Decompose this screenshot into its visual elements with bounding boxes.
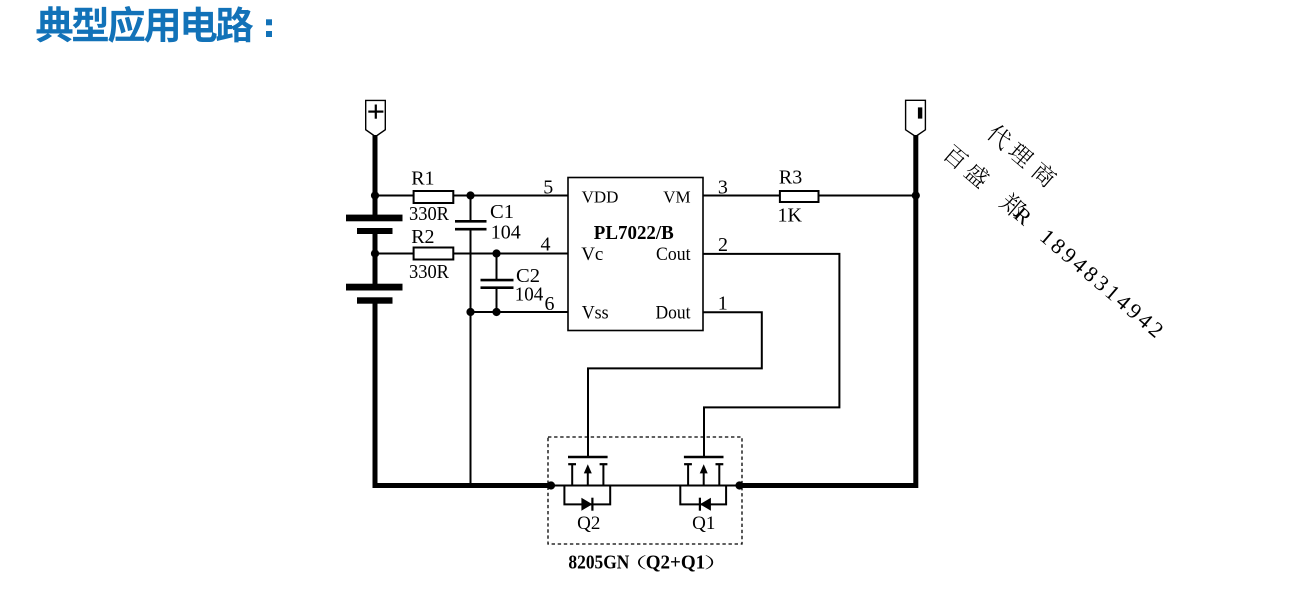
svg-text:Vss: Vss xyxy=(582,303,609,324)
svg-text:330R: 330R xyxy=(409,203,450,225)
svg-text:Vc: Vc xyxy=(581,244,603,265)
svg-text:Cout: Cout xyxy=(656,244,691,265)
svg-text:2: 2 xyxy=(718,234,728,256)
svg-text:1K: 1K xyxy=(778,205,803,227)
svg-text:C1: C1 xyxy=(490,201,514,223)
svg-text:R3: R3 xyxy=(779,167,802,189)
svg-text:Dout: Dout xyxy=(656,303,692,324)
svg-text:R1: R1 xyxy=(411,168,434,190)
svg-text:6: 6 xyxy=(545,293,555,315)
svg-text:Q2+Q1: Q2+Q1 xyxy=(646,552,706,573)
svg-text:Q1: Q1 xyxy=(692,513,715,534)
svg-text:8205GN: 8205GN xyxy=(568,552,629,573)
svg-text:R2: R2 xyxy=(411,226,434,248)
svg-text:VM: VM xyxy=(663,187,690,206)
svg-text:Q2: Q2 xyxy=(577,513,600,534)
svg-text:3: 3 xyxy=(718,177,728,199)
svg-text:VDD: VDD xyxy=(582,187,619,206)
svg-text:330R: 330R xyxy=(409,261,450,283)
svg-text:5: 5 xyxy=(543,176,553,198)
svg-text:104: 104 xyxy=(491,222,521,244)
svg-text:1: 1 xyxy=(718,292,728,314)
svg-text:4: 4 xyxy=(541,234,551,256)
svg-text:104: 104 xyxy=(515,284,544,306)
svg-text:PL7022/B: PL7022/B xyxy=(594,222,674,244)
